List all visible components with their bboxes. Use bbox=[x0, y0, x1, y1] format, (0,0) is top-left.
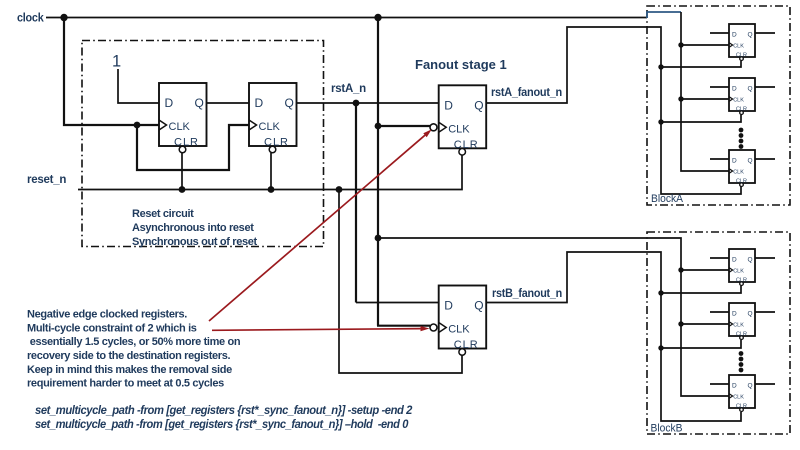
note reset circuit caption bbox=[132, 208, 258, 248]
svg-text:D: D bbox=[732, 86, 737, 93]
flip-flop BlockB FF2 bbox=[729, 303, 755, 340]
junction BlockA rst 1 bbox=[658, 64, 663, 69]
svg-text:Q: Q bbox=[748, 311, 753, 318]
wire rstB_fanout_n to BlockB bbox=[487, 252, 742, 421]
wire BlockB FF1 Q stub bbox=[755, 257, 775, 259]
wire constant 1 to FF1 D bbox=[118, 69, 159, 103]
svg-text:recovery side to the destinati: recovery side to the destination registe… bbox=[27, 350, 230, 362]
svg-text:CLK: CLK bbox=[733, 323, 744, 329]
wire rstA_n bbox=[297, 102, 440, 104]
svg-text:Q: Q bbox=[748, 158, 753, 165]
svg-text:essentially 1.5 cycles, or 50%: essentially 1.5 cycles, or 50% more time… bbox=[27, 336, 241, 348]
svg-text:rstA_n: rstA_n bbox=[331, 83, 366, 95]
svg-text:D: D bbox=[732, 32, 737, 39]
junction clock FF1/FF2 bbox=[134, 122, 141, 129]
junction reset FF1 bbox=[179, 186, 186, 193]
svg-text:CLR: CLR bbox=[174, 137, 199, 149]
flip-flop rstB fanout bbox=[430, 286, 486, 356]
svg-text:CLK: CLK bbox=[733, 269, 744, 275]
reset circuit dashed box bbox=[82, 41, 324, 247]
svg-text:Reset circuit: Reset circuit bbox=[132, 208, 194, 220]
svg-text:BlockA: BlockA bbox=[651, 193, 684, 205]
svg-text:CLK: CLK bbox=[169, 121, 191, 133]
BlockB dashed box bbox=[647, 232, 790, 434]
wire BlockA clk branch 1 bbox=[681, 44, 729, 46]
svg-text:D: D bbox=[444, 98, 453, 112]
flip-flop BlockA FF2 bbox=[729, 78, 755, 114]
flip-flop BlockA FF3 bbox=[729, 150, 755, 187]
svg-text:Q: Q bbox=[748, 32, 753, 39]
junction BlockA rst 2 bbox=[658, 119, 663, 124]
wire BlockB FF3 D stub bbox=[710, 383, 729, 385]
wire clock mid trunk bbox=[377, 18, 379, 326]
wire BlockB clk branch 1 bbox=[681, 269, 729, 271]
svg-text:D: D bbox=[732, 383, 737, 390]
svg-text:CLK: CLK bbox=[448, 324, 470, 336]
svg-text:D: D bbox=[444, 299, 453, 313]
svg-text:Fanout stage 1: Fanout stage 1 bbox=[415, 57, 507, 72]
wire rstA_fanout_n to BlockA bbox=[486, 27, 741, 194]
junction BlockB clk 2 bbox=[678, 321, 683, 326]
wire reset branch to fanoutB CLR bbox=[339, 190, 462, 374]
svg-text:Synchronous out of reset: Synchronous out of reset bbox=[132, 236, 258, 248]
svg-text:CLK: CLK bbox=[448, 123, 470, 135]
flip-flop reset FF2 bbox=[249, 83, 297, 153]
svg-text:Negative edge clocked register: Negative edge clocked registers. bbox=[27, 309, 187, 321]
wire BlockB FF1 CLR return bbox=[661, 286, 741, 293]
wire BlockA FF1 CLR return bbox=[661, 61, 741, 67]
wire rstA_n down to fanoutB D bbox=[355, 103, 357, 303]
junction reset FF2 bbox=[268, 186, 275, 193]
wire BlockB FF1 D stub bbox=[710, 257, 729, 259]
svg-text:set_multicycle_path -from [get: set_multicycle_path -from [get_registers… bbox=[35, 417, 409, 431]
note negative edge caption bbox=[27, 309, 241, 390]
junction BlockA clk 1 bbox=[678, 42, 683, 47]
wire clock branch to BlockB bbox=[378, 238, 729, 396]
svg-text:CLK: CLK bbox=[259, 121, 281, 133]
svg-text:reset_n: reset_n bbox=[27, 174, 66, 186]
svg-text:CLK: CLK bbox=[733, 395, 744, 401]
svg-text:Q: Q bbox=[195, 96, 204, 110]
flip-flop reset FF1 bbox=[159, 83, 207, 153]
wire BlockB clk branch 2 bbox=[681, 323, 729, 325]
wire reset_n horizontal bbox=[78, 155, 462, 189]
junction reset branch down bbox=[336, 186, 343, 193]
wire BlockA FF2 D stub bbox=[710, 86, 729, 88]
svg-text:Q: Q bbox=[748, 383, 753, 390]
wire BlockB FF2 Q stub bbox=[755, 311, 775, 313]
wire clock branch to FF2 CLK bbox=[137, 125, 249, 170]
svg-text:Q: Q bbox=[474, 98, 483, 112]
junction BlockA clk 2 bbox=[678, 96, 683, 101]
svg-text:BlockB: BlockB bbox=[651, 423, 683, 435]
svg-text:Q: Q bbox=[474, 299, 483, 313]
wire clock step into BlockA (blue) bbox=[647, 12, 681, 18]
svg-text:CLR: CLR bbox=[454, 139, 479, 151]
svg-text:CLR: CLR bbox=[264, 137, 289, 149]
wire reset to FF1 CLR bbox=[181, 153, 183, 190]
svg-text:Keep in mind this makes the re: Keep in mind this makes the removal side bbox=[27, 364, 232, 376]
junction clock left bbox=[60, 14, 67, 21]
flip-flop BlockB FF3 bbox=[729, 375, 755, 412]
svg-text:Asynchronous into reset: Asynchronous into reset bbox=[132, 222, 254, 234]
wire BlockA clock trunk bbox=[681, 12, 729, 171]
svg-text:CLK: CLK bbox=[733, 44, 744, 50]
arrow to rstB fanout CLK bbox=[212, 326, 430, 331]
svg-text:Q: Q bbox=[748, 86, 753, 93]
svg-text:Multi-cycle constraint of 2 wh: Multi-cycle constraint of 2 which is bbox=[27, 322, 197, 334]
wire BlockB FF2 D stub bbox=[710, 311, 729, 313]
wire BlockB FF3 Q stub bbox=[755, 383, 775, 385]
arrow to rstA fanout CLK bbox=[209, 129, 432, 321]
wire clock branch to fanoutA CLK bbox=[378, 125, 430, 127]
ellipsis BlockB bbox=[739, 351, 744, 372]
svg-text:Q: Q bbox=[285, 96, 294, 110]
svg-text:D: D bbox=[732, 158, 737, 165]
svg-text:set_multicycle_path -from [get: set_multicycle_path -from [get_registers… bbox=[35, 403, 413, 417]
svg-text:rstB_fanout_n: rstB_fanout_n bbox=[492, 288, 562, 300]
wire BlockA FF3 D stub bbox=[710, 158, 729, 160]
svg-text:D: D bbox=[732, 257, 737, 264]
wire clock horizontal bbox=[46, 17, 647, 19]
wire BlockA FF1 D stub bbox=[710, 32, 729, 34]
svg-text:D: D bbox=[732, 311, 737, 318]
flip-flop rstA fanout bbox=[430, 85, 486, 155]
wire BlockA FF2 Q stub bbox=[755, 86, 775, 88]
junction BlockB rst 1 bbox=[658, 290, 663, 295]
wire reset to FF2 CLR bbox=[270, 153, 272, 190]
wire BlockA FF1 Q stub bbox=[755, 32, 775, 34]
svg-text:1: 1 bbox=[112, 53, 121, 71]
flip-flop BlockA FF1 bbox=[729, 24, 755, 61]
junction clock BlockB bbox=[375, 235, 382, 242]
wire BlockA clk branch 2 bbox=[681, 98, 729, 100]
svg-text:CLK: CLK bbox=[733, 98, 744, 104]
wire BlockB FF2 CLR return bbox=[661, 340, 741, 348]
svg-text:rstA_fanout_n: rstA_fanout_n bbox=[491, 87, 562, 99]
wire FF1 Q to FF2 D bbox=[207, 102, 250, 104]
wire clock branch to fanoutB CLK bbox=[377, 325, 430, 327]
BlockA dashed box bbox=[647, 6, 790, 205]
svg-text:D: D bbox=[165, 96, 174, 110]
svg-text:CLR: CLR bbox=[454, 339, 479, 351]
junction BlockB rst 2 bbox=[658, 345, 663, 350]
svg-text:requirement harder to meet at: requirement harder to meet at 0.5 cycles bbox=[27, 378, 224, 390]
svg-text:CLK: CLK bbox=[733, 170, 744, 176]
svg-text:clock: clock bbox=[17, 13, 44, 25]
ellipsis BlockA bbox=[739, 128, 744, 149]
flip-flop BlockB FF1 bbox=[729, 249, 755, 286]
wire clock down to FF1 CLK bbox=[64, 18, 159, 126]
junction clock fanoutA bbox=[375, 123, 382, 130]
svg-text:D: D bbox=[255, 96, 264, 110]
junction clock mid trunk bbox=[374, 14, 381, 21]
junction rstA_n branch bbox=[353, 100, 360, 107]
wire BlockA FF3 Q stub bbox=[755, 158, 775, 160]
svg-text:Q: Q bbox=[748, 257, 753, 264]
wire BlockA FF2 CLR return bbox=[661, 115, 741, 122]
junction BlockB clk 1 bbox=[678, 267, 683, 272]
